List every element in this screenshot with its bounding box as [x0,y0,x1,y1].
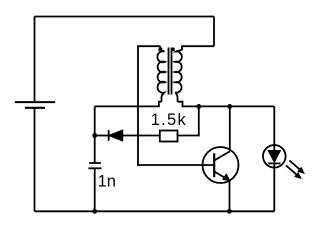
LED D2 cathode bar [268,162,280,164]
LED D2 light arrow 2 shaft [286,165,297,174]
svg-text:1.5k: 1.5k [151,111,187,129]
LED D2 light arrow 1 shaft [289,160,300,169]
svg-text:1n: 1n [98,172,116,190]
transformer T1 left winding [157,46,165,101]
wire diode to resistor R1 [123,135,160,137]
transformer T1 polarity dot right winding [171,48,175,52]
transformer T1 right winding [175,46,182,101]
node junction dot capacitor at bottom rail [92,209,97,214]
node junction dot at diode and capacitor [92,133,97,138]
wire battery bottom to bottom rail [34,108,36,212]
wire diode anode wire [95,135,109,137]
wire transformer left winding top going left and down to base level [138,46,160,166]
transistor Q1 base bar [213,153,215,177]
wire capacitor C1 bottom to bottom rail [94,168,96,211]
wire bottom rail [35,210,275,212]
wire resistor R1 right side up to mid rail [178,106,199,135]
wire from right vertical to transformer right winding top [182,46,214,50]
resistor R1 body [160,131,178,142]
LED D2 triangle pointing down [268,151,280,163]
wire LED anode inside circle [273,145,275,151]
wire top rail from battery plus to right vertical [35,16,215,18]
node junction dot resistor to mid rail [196,104,201,109]
transformer T1 core lines [169,48,172,95]
battery BT1 long plate [15,101,55,103]
wire collector up to mid rail [229,106,231,151]
LED D2 light arrow 1 head [298,168,304,173]
wire right winding bottom step down and mid rail right segment to LED branch [178,102,275,107]
wire from mid rail left end down to diode node [94,106,96,163]
LED D2 light arrow 2 head [295,173,301,178]
transistor Q1 circle [203,147,239,183]
wire LED cathode down to bottom rail [273,163,275,211]
transistor Q1 collector diagonal [214,151,229,160]
capacitor C1 top plate [89,162,101,164]
wire mid rail left segment with step up to left winding bottom [95,102,162,107]
wire battery top [34,17,36,103]
wire LED branch from mid rail down to LED [273,106,275,145]
node junction dot emitter at bottom rail [227,209,232,214]
wire right vertical down to transformer secondary top [213,17,215,47]
LED D2 circle [263,145,286,168]
node junction dot collector at mid rail [227,104,232,109]
transformer T1 polarity dot left winding [159,48,163,52]
wire emitter down to bottom rail [229,181,231,212]
battery BT1 short plate [25,107,45,109]
capacitor C1 bottom plate [88,167,101,169]
transistor Q1 emitter arrowhead [223,174,230,181]
transistor Q1 emitter diagonal [214,172,225,178]
diode D1 cathode bar [108,130,110,141]
wire base wire to transistor Q1 base [138,164,214,166]
diode D1 triangle pointing left [109,130,123,141]
